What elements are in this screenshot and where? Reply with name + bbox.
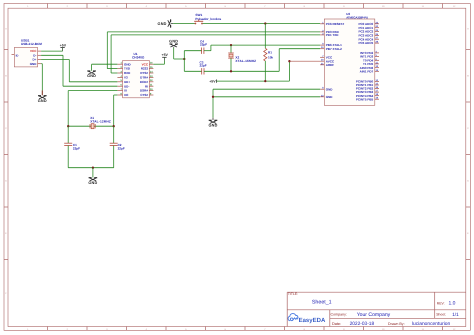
- svg-text:V3: V3: [124, 76, 128, 80]
- svg-text:Drawn By:: Drawn By:: [388, 322, 405, 326]
- svg-text:10k: 10k: [268, 56, 273, 60]
- wire X1 bottom: [68, 167, 114, 169]
- ground GND (X1 cluster): [88, 178, 97, 185]
- svg-text:PC6 RESET#: PC6 RESET#: [326, 22, 345, 26]
- svg-text:Your Company: Your Company: [357, 312, 391, 318]
- svg-text:22pF: 22pF: [118, 146, 125, 150]
- svg-text:GND: GND: [30, 62, 38, 66]
- svg-text:XO: XO: [124, 93, 129, 97]
- svg-text:GND: GND: [326, 95, 334, 99]
- switch SW1 Pulsador_kookos: [194, 13, 221, 24]
- capacitor C2 22pF: [110, 126, 125, 168]
- ground GND (USB): [38, 90, 47, 103]
- crystal X1 XTAL-12MHZ: [90, 116, 111, 129]
- node AVCC: [288, 60, 290, 62]
- svg-text:22pF: 22pF: [73, 146, 80, 150]
- node X2 bottom: [230, 70, 232, 72]
- EasyEDA logo: [288, 314, 326, 324]
- capacitor C1 22pF: [64, 126, 80, 168]
- wire AVCC stub: [289, 60, 324, 62]
- wire USB D+ to U1 UD+: [41, 60, 117, 82]
- svg-text:USB-212-BCM: USB-212-BCM: [21, 42, 42, 46]
- svg-text:GND: GND: [326, 87, 334, 91]
- svg-text:RI: RI: [145, 84, 148, 88]
- svg-text:GND: GND: [158, 22, 167, 26]
- svg-text:RTS#: RTS#: [140, 71, 148, 75]
- svg-text:ID: ID: [16, 53, 19, 57]
- wire SW1 to U3 RESET: [203, 23, 320, 25]
- svg-text:Date:: Date:: [332, 322, 341, 326]
- svg-text:GND: GND: [87, 74, 96, 78]
- svg-text:EasyEDA: EasyEDA: [299, 317, 326, 324]
- wire U1 RXD to U3 PD1 TXD: [111, 35, 320, 73]
- svg-text:GND: GND: [38, 99, 47, 103]
- svg-text:lucianoncenturion: lucianoncenturion: [412, 321, 451, 327]
- wire USB VCC to +5V: [41, 50, 63, 52]
- svg-text:XTAL-16MHZ: XTAL-16MHZ: [235, 59, 256, 63]
- wire USB D- to U1 UD-: [41, 55, 117, 86]
- ground GND (X2 cluster): [169, 40, 178, 48]
- svg-text:Sheet_1: Sheet_1: [312, 300, 332, 306]
- ground GND (U1): [87, 71, 96, 78]
- svg-text:1/1: 1/1: [452, 312, 459, 317]
- ground GND (U3): [208, 118, 217, 128]
- node X1 right: [113, 125, 115, 127]
- svg-text:2022-03-18: 2022-03-18: [350, 321, 375, 327]
- svg-text:PC5 ADC5: PC5 ADC5: [358, 41, 373, 45]
- wire C4-C3 vertical: [183, 51, 185, 72]
- wire X1 top: [68, 125, 114, 127]
- svg-text:Pulsador_kookos: Pulsador_kookos: [195, 17, 221, 21]
- IC U1 CH340G: [117, 52, 153, 98]
- wire USB GND down: [41, 64, 42, 91]
- wire GND vertical: [212, 89, 214, 118]
- svg-text:DCD#: DCD#: [140, 80, 148, 84]
- capacitor C3 22pF: [184, 60, 279, 74]
- svg-text:GND: GND: [88, 181, 97, 185]
- svg-text:R232: R232: [141, 67, 149, 71]
- svg-text:XTAL-12MHZ: XTAL-12MHZ: [90, 119, 111, 123]
- wire to GND (X1 cluster): [92, 168, 94, 178]
- capacitor C4 22pF: [184, 40, 211, 54]
- pin ID (left pin of USB1): [12, 53, 19, 57]
- IC U3 ATMEGA328P-PU: [320, 12, 379, 105]
- svg-text:R1: R1: [268, 50, 272, 54]
- node GND/C4/C3: [183, 58, 185, 60]
- svg-text:AREF: AREF: [326, 63, 334, 67]
- svg-text:PB7 XTAL2: PB7 XTAL2: [326, 47, 342, 51]
- node X2 top: [230, 44, 232, 46]
- wire GND to SW1: [173, 23, 195, 25]
- svg-text:PCINT5 PB5: PCINT5 PB5: [356, 97, 374, 101]
- svg-text:XI: XI: [124, 89, 127, 93]
- node X1 left: [67, 125, 69, 127]
- wire +5V rail: [217, 61, 290, 81]
- node C1 C2 GND: [92, 167, 94, 169]
- svg-text:PD1 TXD: PD1 TXD: [326, 33, 340, 37]
- svg-text:GND: GND: [208, 124, 217, 128]
- crystal X2 XTAL-16MHZ: [228, 45, 256, 71]
- svg-text:1.0: 1.0: [449, 301, 456, 307]
- power flag +5V (U1 VCC): [162, 53, 169, 61]
- power flag +5V (rail): [209, 80, 216, 84]
- wire R1 to +5V rail: [264, 61, 266, 81]
- svg-text:+5V: +5V: [209, 80, 216, 84]
- svg-text:CH340G: CH340G: [132, 56, 145, 60]
- wire to XTAL2: [279, 49, 320, 72]
- wire U1 XI to X1: [68, 91, 117, 127]
- wire U1 GND: [92, 64, 118, 71]
- svg-text:+5V: +5V: [60, 43, 67, 47]
- node R1/+5V: [264, 80, 266, 82]
- svg-text:CTS#: CTS#: [140, 93, 148, 97]
- svg-text:TITLE:: TITLE:: [288, 292, 298, 296]
- wire C4 to XTAL1: [211, 45, 320, 51]
- wire GND down to node: [174, 48, 185, 59]
- svg-text:RXD: RXD: [124, 71, 131, 75]
- resistor R1 10k: [264, 48, 274, 61]
- wire U3 GND pin22: [213, 96, 320, 98]
- svg-text:22pF: 22pF: [200, 63, 207, 67]
- wire U1 XO to X1: [114, 95, 118, 126]
- svg-text:UD-: UD-: [124, 84, 129, 88]
- wire U1 VCC to +5V: [153, 61, 164, 64]
- svg-text:22pF: 22pF: [200, 43, 207, 47]
- wire U3 GND pin8: [213, 88, 320, 90]
- svg-text:REV:: REV:: [437, 301, 445, 305]
- svg-text:Sheet:: Sheet:: [436, 313, 446, 317]
- svg-text:GND: GND: [169, 40, 178, 44]
- svg-text:AIN1 PD7: AIN1 PD7: [360, 69, 374, 73]
- power flag +5V (USB VCC): [60, 43, 67, 51]
- svg-text:DSR#: DSR#: [140, 89, 148, 93]
- svg-text:TXD: TXD: [124, 67, 131, 71]
- connector USB1: [14, 38, 42, 67]
- node RESET/R1: [264, 22, 266, 24]
- title block: [287, 292, 466, 327]
- svg-text:VCC: VCC: [142, 62, 149, 66]
- svg-text:GND: GND: [124, 62, 132, 66]
- svg-text:UD+: UD+: [124, 80, 130, 84]
- svg-text:+5V: +5V: [162, 53, 169, 57]
- svg-text:DTR#: DTR#: [140, 76, 148, 80]
- ground GND (left of SW1): [158, 19, 174, 27]
- node GND pins: [212, 96, 214, 98]
- svg-text:Company:: Company:: [331, 313, 347, 317]
- wire node to R1: [264, 24, 266, 49]
- wire U1 TXD to U3 PD0 RXD: [107, 32, 320, 69]
